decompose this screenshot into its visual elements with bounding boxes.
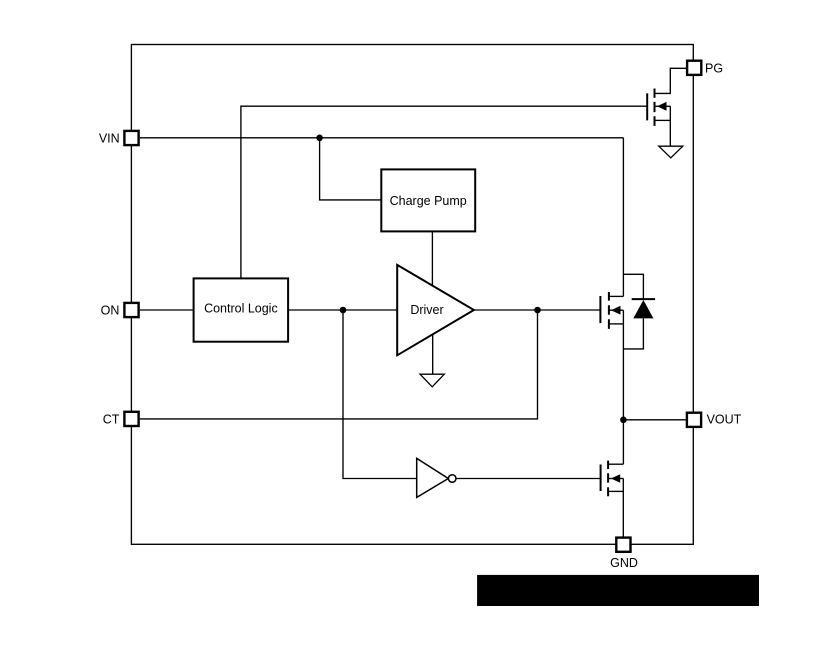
- transistor Q3 body arrow: [611, 474, 620, 483]
- wire discharge FET source to GND pin: [622, 479, 624, 537]
- inverter bubble: [448, 475, 456, 483]
- pin VIN: [124, 131, 138, 145]
- transistor Q3 source stub: [608, 490, 623, 492]
- transistor Q1 channel dashes: [608, 292, 610, 329]
- transistor Q3 discharge FET gate bar: [600, 465, 602, 492]
- wire VOUT: [623, 419, 686, 421]
- ground under driver: [420, 374, 444, 387]
- wire control logic to PG FET gate: [241, 106, 647, 278]
- diode D1 cathode bar: [632, 298, 655, 300]
- wire VIN to charge pump: [320, 138, 382, 200]
- control logic box: [194, 278, 289, 341]
- wire charge pump to driver: [431, 231, 433, 285]
- redaction black bar: [477, 575, 759, 606]
- transistor Q2 channel dashes: [654, 89, 656, 126]
- pin CT: [124, 412, 138, 426]
- wire control logic output to driver: [288, 309, 397, 311]
- pin GND: [616, 538, 630, 552]
- wire driver output to pass FET gate: [474, 309, 601, 311]
- svg-text:ON: ON: [101, 304, 120, 318]
- transistor Q1 drain stub: [609, 295, 624, 297]
- svg-text:Driver: Driver: [410, 303, 443, 317]
- diode D1 branch top: [623, 274, 643, 299]
- diode D1 triangle: [633, 300, 653, 318]
- transistor Q2 source to ground: [669, 106, 671, 146]
- svg-text:CT: CT: [103, 412, 120, 426]
- wire CT line: [140, 310, 538, 419]
- transistor Q1 body arrow: [611, 306, 621, 315]
- transistor Q2 body arrow: [657, 102, 667, 111]
- transistor Q3 body stub: [608, 478, 623, 480]
- svg-text:VOUT: VOUT: [707, 412, 742, 426]
- wire junction to inverter input: [343, 310, 417, 479]
- diode D1 branch bottom: [623, 318, 643, 349]
- outer boundary box: [131, 45, 693, 545]
- charge pump box: [381, 169, 475, 231]
- transistor Q2 drain stub and lead to PG: [655, 68, 687, 93]
- node VIN branch junction: [316, 135, 323, 142]
- node VOUT junction: [620, 417, 627, 424]
- ground under PG FET: [659, 146, 683, 158]
- node driver output junction: [534, 307, 541, 314]
- svg-text:Control Logic: Control Logic: [204, 302, 278, 316]
- wire inverter output to discharge FET gate: [456, 478, 601, 480]
- wire main vertical VIN to pass FET drain: [622, 138, 624, 297]
- transistor Q1 body stub: [609, 309, 624, 311]
- transistor Q3 drain stub: [608, 463, 623, 465]
- transistor Q1 source stub: [609, 323, 624, 325]
- wire driver ground lead: [432, 334, 434, 374]
- svg-text:VIN: VIN: [99, 131, 120, 145]
- transistor Q2 source stub: [655, 119, 671, 121]
- svg-text:PG: PG: [705, 61, 723, 75]
- pin VOUT: [687, 413, 701, 427]
- transistor Q2 body stub: [655, 105, 671, 107]
- wire ON to control logic: [140, 309, 194, 311]
- op-amp driver U1: [397, 265, 474, 355]
- transistor Q2 PG FET gate bar: [646, 93, 648, 120]
- svg-text:Charge Pump: Charge Pump: [390, 194, 467, 208]
- node driver input junction: [340, 307, 347, 314]
- transistor Q3 channel dashes: [607, 461, 609, 497]
- wire VIN horizontal: [140, 137, 624, 139]
- svg-text:GND: GND: [610, 556, 638, 570]
- pin ON: [124, 303, 138, 317]
- pin PG: [687, 61, 701, 75]
- wire pass FET source down to discharge FET drain: [622, 310, 624, 464]
- inverter U2: [417, 458, 449, 497]
- transistor Q1 pass FET gate bar: [599, 296, 601, 323]
